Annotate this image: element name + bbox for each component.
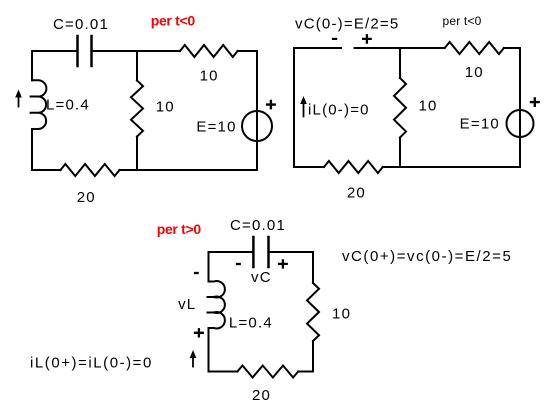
svg-text:iL(0+)=iL(0-)=0: iL(0+)=iL(0-)=0 [30,354,153,371]
current arrow iL (top-right circuit) [303,103,305,117]
wire right side lower [256,141,258,170]
capacitor C1 plates [78,36,92,66]
label + polarity of open capacitor [362,34,372,44]
resistor R3 20 (bottom horizontal) [61,164,120,176]
wire capacitor to top-right corner [269,251,314,253]
wire left upper [31,51,33,80]
wire node A to resistor R2 [137,50,180,52]
wire through source E1 [256,111,258,141]
voltage source E1 circle [242,111,272,141]
voltage source E2 circle [507,110,534,137]
wire resistor R2 to top-right corner [238,50,257,52]
svg-text:20: 20 [77,189,96,206]
wire capacitor to node A [92,50,138,52]
svg-text:C=0.01: C=0.01 [230,217,286,234]
label + polarity of inductor voltage vL [194,328,204,337]
wire top-left segment to gap [294,47,341,49]
label - polarity of capacitor C2 [236,263,241,265]
wire middle branch lower [136,137,138,171]
svg-text:L=0.4: L=0.4 [229,314,273,331]
svg-text:per t>0: per t>0 [157,221,202,237]
svg-text:10: 10 [332,306,351,323]
svg-text:vC(0-)=E/2=5: vC(0-)=E/2=5 [295,16,399,33]
svg-text:C=0.01: C=0.01 [53,16,109,33]
wire bottom-left segment [32,169,61,171]
wire node D to resistor R6 [383,166,400,168]
wire left side upper [208,252,210,282]
current arrow iL (bottom circuit) [192,357,194,367]
wire resistor R5 to top-right corner [504,47,520,49]
label + polarity of source E1 [266,100,276,110]
resistor R5 10 (top horizontal) [445,42,504,54]
wire node C to resistor R5 [400,47,445,49]
svg-text:20: 20 [347,184,366,201]
svg-text:vC(0+)=vc(0-)=E/2=5: vC(0+)=vc(0-)=E/2=5 [342,248,512,265]
wire through source E2 [519,110,521,137]
resistor R1 10 (middle vertical) [131,81,143,137]
svg-text:10: 10 [418,97,437,114]
wire gap to node C (open capacitor) [355,47,401,49]
wire left lower [31,129,33,170]
resistor R6 20 (bottom horizontal) [324,161,383,173]
label + polarity of source E2 [530,97,540,107]
resistor R7 10 (right vertical) [307,283,319,341]
svg-text:L=0.4: L=0.4 [46,97,90,114]
wire right side upper [312,252,314,283]
wire top-left segment to capacitor [209,251,254,253]
wire right side upper [519,48,521,110]
wire bottom-left segment [294,166,324,168]
svg-text:20: 20 [252,387,271,404]
label - polarity of open capacitor [332,38,337,40]
wire right side upper (to source E1) [256,51,258,111]
svg-text:10: 10 [465,64,484,81]
current arrow iL (top-left circuit) [18,96,20,107]
wire right side lower [519,137,521,167]
svg-text:10: 10 [200,67,219,84]
label - polarity of inductor voltage vL [194,272,199,274]
svg-text:vC: vC [251,269,272,286]
wire bottom-right segment [298,371,313,373]
svg-text:E=10: E=10 [196,119,236,136]
resistor R8 20 (bottom horizontal) [237,366,298,378]
wire bottom-left segment [209,371,238,373]
wire left side lower [208,328,210,372]
wire left side [293,48,295,167]
inductor L1 coils [31,80,47,129]
svg-text:vL: vL [178,296,196,313]
wire bottom-right segment [400,166,520,168]
wire bottom-right segment [137,169,257,171]
inductor L2 coils [208,281,225,328]
wire middle branch upper [136,51,138,81]
resistor R2 10 (top horizontal) [180,45,238,57]
svg-text:E=10: E=10 [460,116,500,133]
wire node B to resistor R3 [120,169,138,171]
wire right side lower [312,341,314,372]
label + polarity of capacitor C2 [278,259,288,268]
svg-text:10: 10 [156,99,175,116]
capacitor C2 plates [253,237,268,267]
wire middle branch lower [399,138,401,168]
resistor R4 10 (middle vertical) [394,78,406,138]
wire middle branch upper [399,48,401,78]
svg-text:per t<0: per t<0 [442,14,481,28]
svg-text:iL(0-)=0: iL(0-)=0 [308,102,370,119]
wire top-left segment to capacitor [32,50,78,52]
svg-text:per t<0: per t<0 [151,13,196,29]
